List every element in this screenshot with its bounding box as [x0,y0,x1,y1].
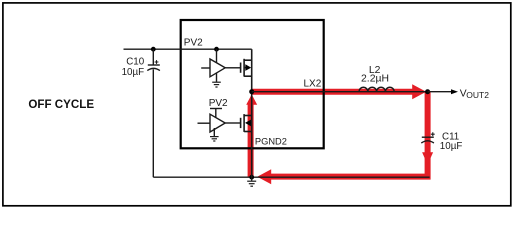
svg-text:PGND2: PGND2 [255,137,287,147]
red arrowhead left (into ground node) [257,169,271,184]
op-amp driver U2 (lower buffer) [198,109,241,137]
svg-text:OFF CYCLE: OFF CYCLE [28,98,94,111]
red arrowhead down (on right vertical below C11) [422,152,433,165]
node ground junction dot [249,175,254,180]
red arrowhead right (into VOUT node) [412,84,426,99]
red current path: right vertical and bottom return run [271,92,428,177]
ground below upper buffer [212,82,221,87]
svg-text:PV2: PV2 [184,38,203,49]
plus sign of C11 [431,132,435,136]
svg-text:PV2: PV2 [209,98,228,109]
ground below lower buffer [210,137,219,141]
node VOUT junction dot [425,89,430,94]
wire bottom return (ground rail) [153,176,429,178]
capacitor C10 [147,49,160,177]
plus sign of C10 [155,60,159,64]
red current path: LX2 horizontal run [252,89,413,95]
svg-text:10µF: 10µF [440,141,463,152]
svg-text:OUT2: OUT2 [466,90,489,100]
wire PV2 input rail [124,48,252,50]
red arrowhead up (into LX2 node) [246,94,257,104]
red current path: left vertical (through low-side FET) [248,104,254,177]
ground symbol at PGND2 return [247,177,256,186]
svg-text:C10: C10 [126,56,145,67]
wire LX2 to output node [252,91,428,93]
node junction dot at C10 tap [151,47,156,52]
svg-text:10µF: 10µF [122,67,145,78]
svg-text:2.2µH: 2.2µH [361,74,389,85]
wire to VOUT2 terminal [428,91,452,93]
svg-text:LX2: LX2 [304,79,322,90]
op-amp driver U1 (upper buffer) [201,49,240,82]
inductor L2 [359,87,394,91]
power bar symbol for lower driver [210,108,222,110]
IC box outline [181,20,324,148]
node junction dot above upper driver [214,47,219,52]
arrowhead VOUT2 terminal [451,89,458,94]
transistor Q2 (low-side MOSFET) [241,92,252,178]
body arrow of Q2 (points left) [245,120,251,127]
transistor Q1 (high-side MOSFET) [241,49,252,91]
capacitor C11 [421,137,434,143]
node LX2 junction dot [249,89,254,94]
body arrow of Q1 (points right) [245,64,251,71]
